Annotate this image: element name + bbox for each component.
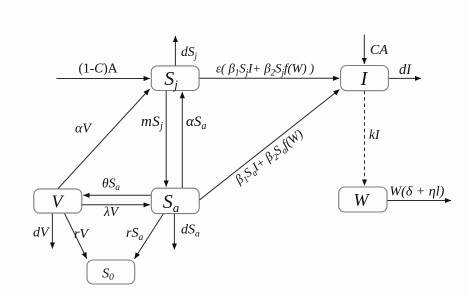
node W box [339,187,387,212]
svg-text:dV: dV [33,226,50,241]
node V box [34,189,82,213]
wire rV V to S0 [65,214,87,259]
wire epsilon transmission Sj to I [199,77,339,79]
wire dV out of V bottom [51,213,53,249]
wire alphaV V to Sj [58,89,150,189]
wire mSj down Sj to Sa [165,91,167,187]
svg-text:rSa: rSa [126,226,143,243]
label eps(b1SjI+b2Sjf(W)) [216,61,314,77]
svg-text:αSa: αSa [186,114,206,132]
node Sa box [151,188,199,213]
node S0 box [87,260,135,284]
svg-text:λV: λV [103,204,120,219]
svg-text:αV: αV [75,122,92,137]
wire (1-C)A input to Sj [57,78,150,80]
svg-text:CA: CA [370,43,388,58]
svg-text:dSa: dSa [181,223,200,240]
wire kI dashed I to W [364,91,366,186]
svg-text:mSj: mSj [141,114,163,132]
wire lambdaV V to Sa [82,204,150,206]
wire W output [387,200,451,202]
svg-text:W(δ + ηl): W(δ + ηl) [390,185,445,200]
svg-text:dI: dI [399,62,412,78]
wire beta diagonal Sa to I [199,90,340,201]
wire dSj out of Sj top [174,36,176,66]
wire dI out of I [388,77,421,79]
wire rSa Sa to S0 [135,214,164,259]
svg-text:ε( β1SjI+ β2Sjf(W) ): ε( β1SjI+ β2Sjf(W) ) [216,61,314,77]
svg-text:dSj: dSj [181,44,198,61]
node I box [341,66,389,91]
wire dSa out of Sa bottom [173,214,175,250]
svg-text:kI: kI [369,127,381,142]
wire alphaSa up Sa to Sj [181,92,183,188]
wire thetaSa Sa to V [83,194,151,196]
svg-text:β1SaI+ β2Saf(W): β1SaI+ β2Saf(W) [232,127,307,189]
svg-text:(1-C)A: (1-C)A [78,61,117,76]
svg-text:W: W [354,190,371,210]
svg-text:rV: rV [74,227,89,242]
wire CA into I top [363,35,365,65]
svg-text:θSa: θSa [102,176,120,193]
svg-text:I: I [360,68,369,90]
node Sj box [151,66,199,91]
